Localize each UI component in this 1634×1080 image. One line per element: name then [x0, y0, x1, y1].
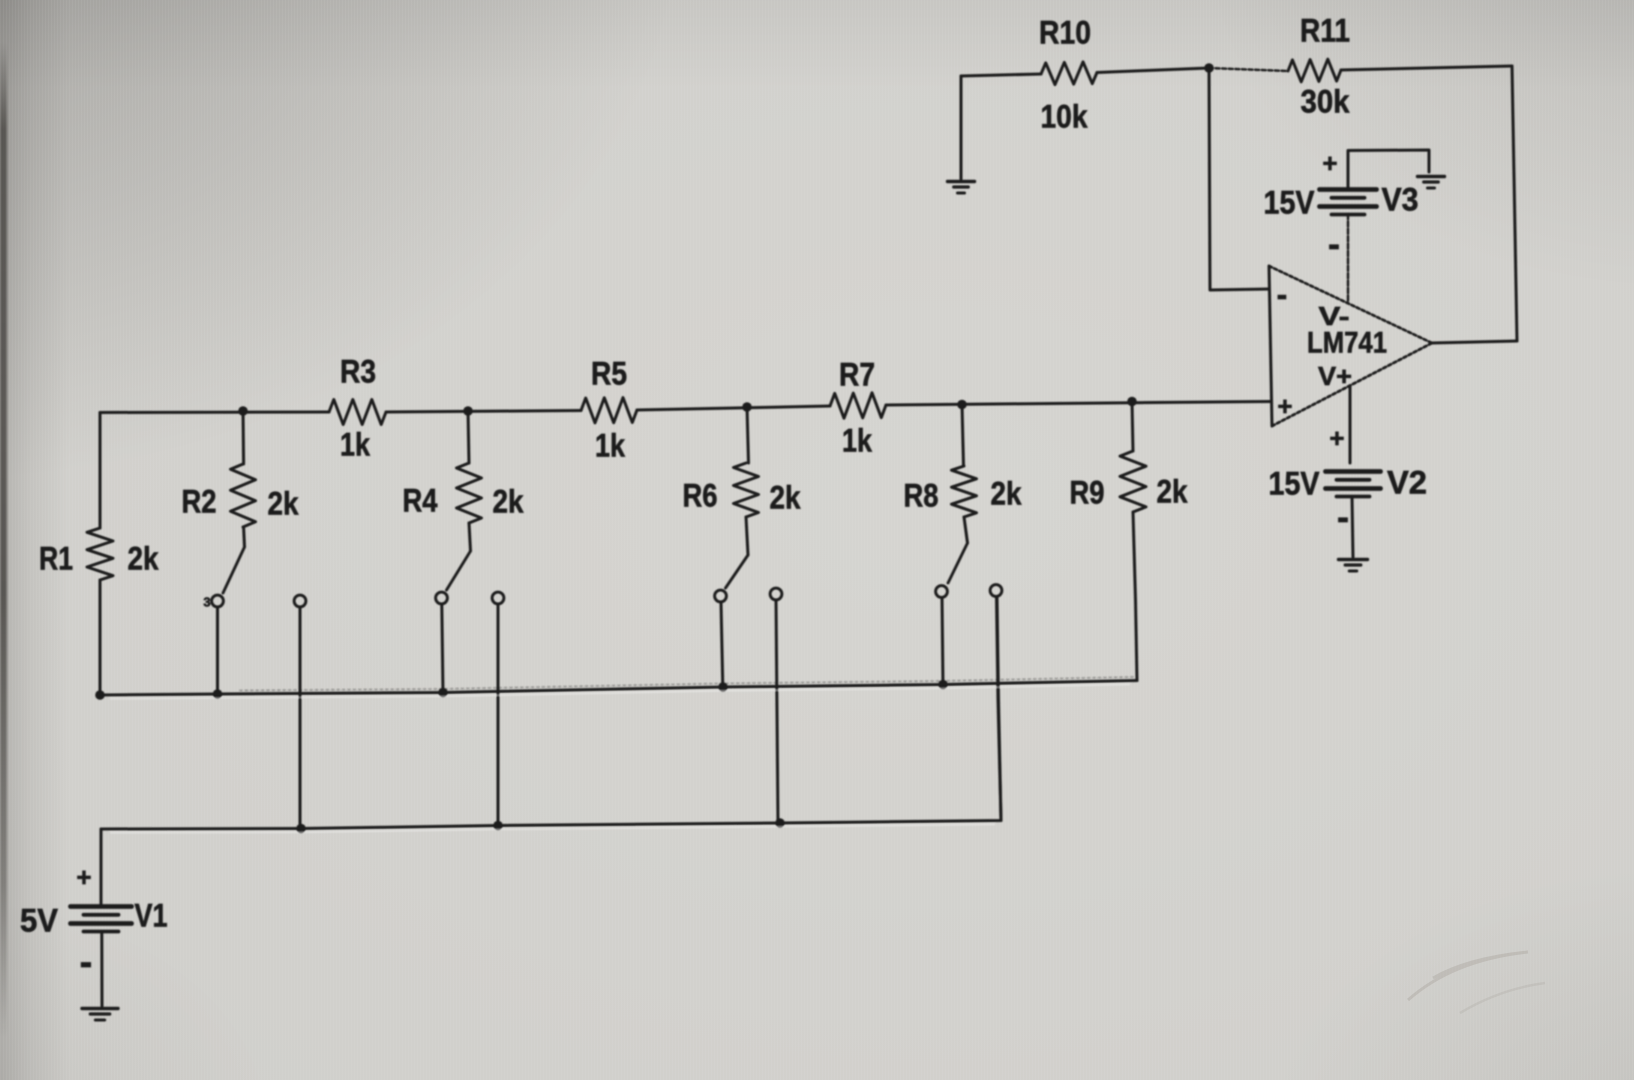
svg-text:R2: R2 — [182, 483, 217, 519]
svg-text:+: + — [1277, 391, 1292, 421]
svg-text:1k: 1k — [340, 426, 370, 462]
svg-text:1k: 1k — [595, 427, 625, 463]
svg-text:+: + — [1329, 423, 1344, 453]
svg-text:2k: 2k — [991, 475, 1022, 511]
svg-text:R11: R11 — [1300, 12, 1350, 48]
svg-text:2k: 2k — [128, 540, 159, 576]
svg-text:15V: 15V — [1264, 184, 1316, 220]
svg-text:15V: 15V — [1269, 465, 1321, 501]
svg-text:R7: R7 — [839, 356, 875, 392]
svg-text:R10: R10 — [1039, 14, 1091, 50]
svg-text:R3: R3 — [340, 353, 376, 389]
svg-text:V1: V1 — [135, 897, 168, 933]
svg-text:2k: 2k — [268, 485, 299, 521]
svg-text:30k: 30k — [1301, 83, 1350, 119]
svg-text:R1: R1 — [39, 540, 73, 576]
svg-text:10k: 10k — [1041, 98, 1088, 134]
svg-text:2k: 2k — [770, 479, 801, 515]
svg-text:R4: R4 — [403, 482, 438, 518]
svg-text:LM741: LM741 — [1307, 327, 1387, 360]
svg-text:+: + — [1322, 148, 1337, 178]
svg-text:V+: V+ — [1318, 361, 1352, 391]
svg-text:3: 3 — [203, 595, 210, 610]
svg-text:1k: 1k — [842, 422, 872, 458]
svg-text:V2: V2 — [1387, 464, 1427, 500]
svg-text:5V: 5V — [20, 902, 59, 938]
svg-text:R5: R5 — [591, 355, 627, 391]
svg-text:V3: V3 — [1382, 181, 1419, 217]
svg-text:R8: R8 — [904, 477, 939, 513]
svg-text:R6: R6 — [683, 477, 718, 513]
svg-text:-: - — [1277, 276, 1288, 312]
svg-text:R9: R9 — [1070, 474, 1105, 510]
svg-text:+: + — [76, 862, 91, 892]
svg-text:2k: 2k — [493, 483, 524, 519]
svg-text:-: - — [1337, 496, 1349, 537]
svg-text:-: - — [1328, 223, 1340, 264]
svg-text:-: - — [80, 942, 93, 984]
svg-text:2k: 2k — [1157, 473, 1188, 509]
